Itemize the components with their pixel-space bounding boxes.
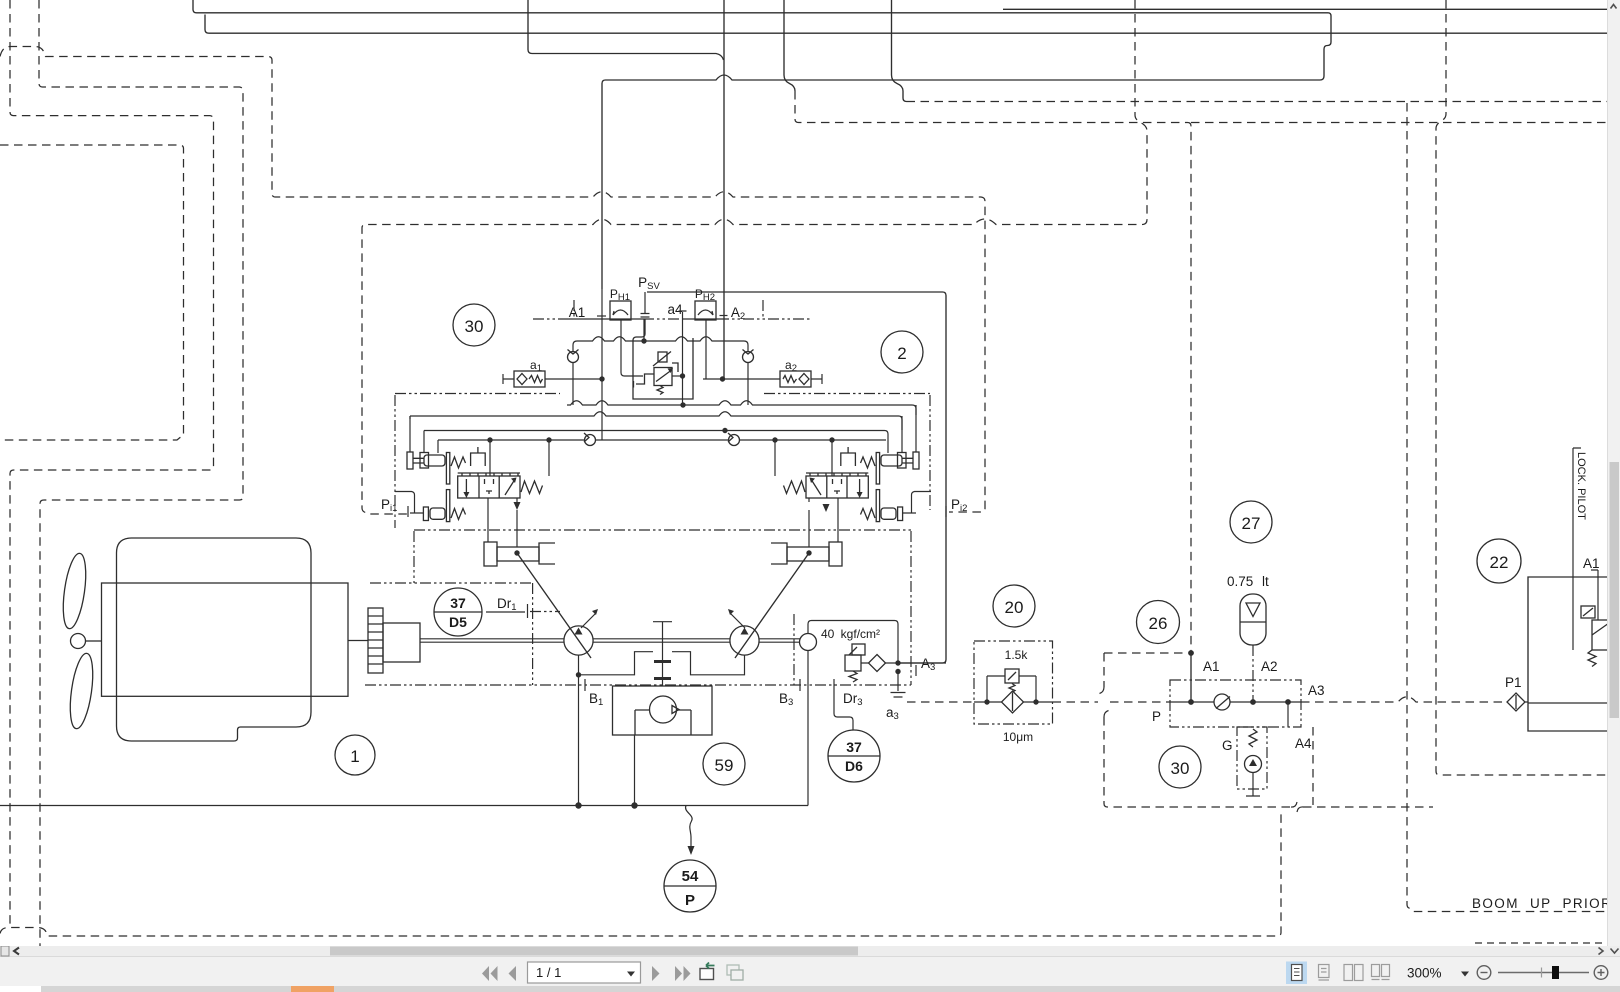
label circle 59 — [703, 743, 745, 785]
wire right pump lever arrow — [730, 613, 745, 628]
svg-text:10μm: 10μm — [1003, 730, 1033, 744]
label circle 26 — [1137, 601, 1180, 644]
valve 22 solenoid — [1592, 620, 1609, 650]
actuator right servo cylinder — [771, 542, 842, 566]
wire vertical x=602 through block — [601, 289, 603, 440]
valve right pilot spool assembly — [784, 447, 932, 522]
wire dashed segment y=943 bottom right — [1475, 942, 1608, 944]
label circle 20 — [993, 585, 1035, 627]
wire top solid bus line 2 — [205, 15, 1608, 34]
filter 20 assembly — [974, 641, 1053, 744]
wire main pilot dashed line y=702 left of filter — [907, 701, 974, 703]
svg-text:P: P — [685, 892, 695, 909]
svg-text:26: 26 — [1149, 614, 1168, 633]
wire pilot pump pressure line — [808, 621, 898, 664]
boundary dash-dot Dr1 stub — [530, 611, 560, 613]
wire manifold rail R3 — [410, 412, 902, 430]
node Dr3 — [833, 679, 835, 691]
boundary dash-dot right side x=930 — [929, 395, 931, 510]
node B3 — [799, 679, 801, 691]
check valve left top — [568, 352, 579, 363]
wire top solid thin line — [1003, 8, 1608, 10]
wire manifold rail R4 — [424, 431, 888, 441]
wire top solid line 3 with corner from vertical — [528, 0, 724, 60]
wire check drops to R2 — [573, 363, 748, 406]
shaft engine to gear — [348, 640, 368, 642]
label circle 22 — [1477, 539, 1521, 583]
ground a3 tank — [891, 672, 906, 698]
svg-text:37: 37 — [450, 595, 466, 611]
vertical scrollbar — [1607, 0, 1620, 946]
svg-text:G: G — [1222, 738, 1233, 753]
coupling symbol between pumps — [653, 622, 672, 686]
svg-text:P1: P1 — [1505, 675, 1522, 690]
wire ports line segments — [562, 318, 718, 320]
boundary dash-dot y=685 bottom — [365, 684, 911, 686]
gear coupling — [368, 608, 383, 673]
svg-text:54: 54 — [682, 868, 699, 885]
boundary dash-dot x=794 — [793, 614, 795, 685]
wire drain wiggle to tank arrow — [686, 806, 693, 848]
wire block inner verticals — [621, 318, 706, 405]
wire dashed left L4 y=145 to y=440 — [0, 145, 184, 440]
valve left pilot spool assembly — [395, 447, 543, 522]
pump pilot gear — [800, 634, 817, 651]
svg-text:30: 30 — [465, 317, 484, 336]
wire pilot pump drop to collector — [807, 651, 809, 806]
wire manifold rail R5 with check valves — [438, 439, 886, 441]
wire solid A1 riser into block 26 — [1190, 652, 1192, 702]
wire top solid line 4 with hop over x=724 — [602, 75, 1320, 289]
svg-text:1: 1 — [350, 747, 359, 766]
svg-text:1.5k: 1.5k — [1005, 648, 1029, 662]
svg-text:40 kgf/cm²: 40 kgf/cm² — [821, 627, 880, 641]
svg-text:22: 22 — [1490, 553, 1509, 572]
boundary dash-dot left side x=395 — [394, 395, 396, 528]
boundary dash-dot y=530 — [414, 529, 911, 531]
wire A3 line to 22 with hop at 1407 and P1 diamond — [1301, 697, 1506, 702]
wire vertical x=891 stepping to dashed y=101.5 — [892, 0, 907, 102]
label circle 27 — [1230, 501, 1272, 543]
wire B1 drain drop — [578, 675, 580, 806]
boundary dash-dot y=393.5 — [395, 393, 930, 395]
wire dashed right vertical x=1407 down to y=911.5 — [1407, 103, 1608, 912]
wire dashed horizontal y=101.5 — [907, 101, 1609, 103]
wire left spool outputs — [488, 498, 517, 547]
label circle 1 — [335, 735, 375, 775]
wire right swash diagonal — [735, 553, 809, 658]
label circle 30 right — [1159, 746, 1201, 788]
wire dashed left vertical x=39 with corners y=87 / y=500 — [39, 0, 243, 946]
wire manifold rail R2 with hops — [567, 401, 916, 415]
svg-text:D5: D5 — [449, 614, 467, 630]
wire manifold rail R1 with hops — [573, 337, 748, 351]
junction dots manifold — [599, 376, 604, 381]
wire top solid bus line 1 — [193, 0, 1331, 80]
svg-text:300%: 300% — [1407, 966, 1442, 981]
wire dashed horizontal y=122.5 continuation to right edge — [1191, 122, 1608, 124]
wire left pilot drops — [410, 416, 549, 476]
wire left pump lever arrow — [581, 613, 596, 628]
label LOCK PILOT — [1573, 448, 1581, 650]
port 54-P tank circle — [664, 860, 716, 912]
boundary dash-dot x=911 — [910, 531, 912, 685]
valve box 22 — [1528, 577, 1608, 731]
wire bottom collector line — [0, 805, 808, 807]
engine E1 body — [117, 538, 312, 741]
svg-text:A4: A4 — [1295, 736, 1312, 751]
wire dashed bottom line y=935.5 with hump and riser x=1281 — [0, 809, 1281, 936]
label circle 2 — [881, 331, 923, 373]
wire gearbox drain drop — [634, 735, 636, 806]
svg-text:0.75 lt: 0.75 lt — [1227, 574, 1269, 589]
fan blades — [59, 552, 101, 730]
boundary dash-dot x=414 — [413, 531, 415, 583]
svg-text:A3: A3 — [1308, 683, 1325, 698]
svg-text:A1: A1 — [1583, 556, 1600, 571]
valve PSV pilot relief center — [633, 319, 693, 399]
wire dashed left vertical x=10 with corners y=115.6 / y=470 — [10, 0, 214, 925]
node Dr1 — [486, 604, 528, 618]
pump P2 main right — [730, 626, 759, 655]
label circle 30 top-left — [453, 304, 495, 346]
svg-text:P: P — [1152, 709, 1161, 724]
valve relief G in block 26 — [1237, 727, 1267, 789]
svg-text:A2: A2 — [1261, 659, 1278, 674]
svg-text:BOOM UP PRIORT: BOOM UP PRIORT — [1472, 896, 1620, 911]
wire dashed left L1 y=56.5 to y=197 to Pi2 riser x=985 — [0, 47, 985, 513]
wire left swash diagonal — [517, 553, 591, 658]
svg-text:LOCK. PILOT: LOCK. PILOT — [1575, 452, 1587, 520]
check diamond pilot — [869, 655, 886, 672]
svg-text:37: 37 — [846, 739, 862, 755]
svg-text:27: 27 — [1242, 514, 1261, 533]
svg-text:A1: A1 — [569, 305, 586, 320]
wire Dr3 to 37-D6 — [834, 691, 853, 730]
svg-text:A1: A1 — [1203, 659, 1220, 674]
valve block 26 P-A1-A2-A3 — [1170, 680, 1301, 727]
wire accumulator riser A2 — [1252, 645, 1254, 700]
wire case drain staircase right — [672, 652, 745, 675]
actuator left servo cylinder — [484, 542, 555, 566]
wire vertical x=784 stepping to dashed — [784, 0, 795, 91]
svg-text:a4: a4 — [667, 302, 683, 317]
wire block 26 main line — [1170, 701, 1214, 703]
svg-text:59: 59 — [715, 756, 734, 775]
check valve rail5 right — [729, 435, 740, 446]
svg-text:30: 30 — [1171, 759, 1190, 778]
wire case drain staircase left — [579, 652, 654, 675]
label circle 37-D5 — [434, 588, 482, 636]
wire right pilot drops — [775, 405, 916, 476]
wire dashed right vertical x=1446 step to x=1436 down to y=775 — [1436, 0, 1608, 775]
pump P1 main left — [564, 626, 593, 655]
engine E1 block rect — [102, 583, 349, 696]
label circle 37-D6 — [828, 730, 880, 782]
boundary dash-dot x=532 — [532, 583, 534, 685]
boundary dash-dot y=583 — [370, 582, 532, 584]
boundary 26 dashed box bottom right with break — [1303, 806, 1433, 808]
svg-text:20: 20 — [1005, 598, 1024, 617]
check valve right top — [743, 352, 754, 363]
svg-text:2: 2 — [897, 344, 906, 363]
svg-text:D6: D6 — [845, 758, 863, 774]
wire A4 drop dashed — [1287, 702, 1289, 727]
gearbox 59 — [613, 686, 713, 735]
bottom chrome toolbar — [0, 946, 1620, 992]
wire outer solid box of pump group — [647, 292, 946, 663]
wire dashed box top-right corner x=1135 down to y=224.5 leftwards — [362, 0, 1147, 514]
boundary 26 dashed box left side with breaks — [1104, 653, 1290, 807]
wire main pilot dashed line y=702 right of filter — [1053, 701, 1171, 703]
svg-text:1 / 1: 1 / 1 — [536, 965, 561, 980]
wire dashed riser x=795 to horizontal y=122.5 to vertical x=1191 — [795, 91, 1191, 651]
check valve rail5 left — [585, 435, 596, 446]
wire right spool outputs — [809, 498, 838, 547]
wire vertical feed x=724 — [723, 0, 725, 379]
wire drive shaft double lines — [420, 639, 800, 642]
node B1 — [584, 679, 586, 691]
